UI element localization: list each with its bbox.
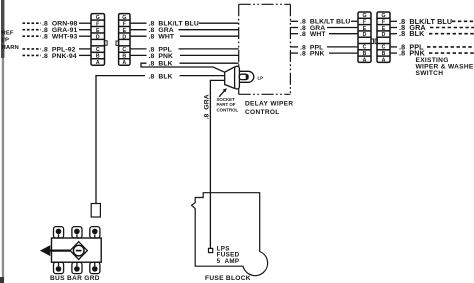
svg-text:.8 WHT: .8 WHT [149,34,175,41]
svg-text:E: E [382,26,386,32]
connector C2 half B (pins G-A) [375,12,390,63]
svg-text:REF: REF [2,30,14,36]
wire BLK ground run to bus bar drop [96,76,145,204]
wire C2 pin D to switch label [390,33,397,35]
svg-text:CONTROL: CONTROL [217,107,239,112]
svg-text:C: C [382,45,386,51]
wire dashed lead WHT-93 [23,35,42,37]
svg-text:HARN: HARN [2,45,19,51]
svg-text:E: E [123,28,127,34]
svg-text:.8 GRA: .8 GRA [204,94,211,119]
svg-text:D: D [382,32,386,38]
wire C2 pin C to switch label [390,46,397,48]
wire WHT to control [180,35,239,37]
fuse terminal LPS [209,248,213,252]
node EXISTING WIPER & WASHER SWITCH [416,57,474,77]
svg-text:.8 WHT-93: .8 WHT-93 [42,34,77,41]
connector C1 half B (pins G-A) [116,14,130,66]
svg-text:LP: LP [258,76,264,81]
wire PNK to control [180,54,239,56]
svg-text:F: F [382,20,385,26]
delay wiper control box [239,4,291,94]
wire pin E to label GRA [130,29,147,31]
bus bar bottom tab 2 [72,262,82,273]
svg-text:.8 WHT: .8 WHT [300,31,326,38]
wire ORN-98 to connector pin F [79,22,91,24]
wire dashed lead ORN-98 [23,22,42,24]
wire control to label PPL (right) [290,46,298,48]
bus bar center bolt [70,242,87,260]
svg-text:B: B [382,51,386,57]
svg-text:G: G [381,13,385,19]
bus bar top tab 3 [90,227,100,238]
wire dashed PNK to switch [429,52,474,54]
wire GRA socket stub [210,80,224,248]
wire control to label WHT (right) [290,33,298,35]
svg-text:F: F [96,21,99,27]
wire dashed BLK/LT BLU to switch [452,20,474,22]
wire GRA to control [179,29,239,31]
svg-text:D: D [122,34,126,40]
svg-text:CONTROL: CONTROL [245,109,280,116]
lamp socket barrel [239,71,253,82]
svg-text:C: C [122,47,126,53]
lamp LP bulb [239,74,248,79]
harness edge bar (page binding) [0,0,4,283]
bus bar body [52,238,102,262]
label DELAY WIPER CONTROL [245,101,293,116]
wire control to label PNK (right) [290,52,298,54]
svg-text:E: E [363,26,367,32]
ground arrow [40,245,70,256]
inline connector on BLK ground wire [91,204,100,218]
wire dashed GRA to switch [430,27,474,29]
wire GRA-91 to connector pin E [79,29,91,31]
wire WHT to connector C2 [329,33,358,35]
svg-text:G: G [122,15,126,21]
fuse block outline [192,193,268,276]
wire pin B to label PNK [130,54,147,56]
svg-text:F: F [363,20,366,26]
node REF I/P HARN [2,30,19,51]
wire pin C to label PPL [130,48,147,50]
svg-text:F: F [123,21,126,27]
svg-text:A: A [122,60,126,66]
lamp socket rear cup [225,67,235,89]
label SOCKET PART OF CONTROL [217,97,239,112]
svg-text:B: B [363,51,367,57]
bus bar top tab 2 [72,227,82,238]
wire BLK ground run to socket [180,75,225,77]
svg-text:D: D [96,34,100,40]
wire dashed lead GRA-91 [23,29,42,31]
connector C1 half A (pins G-A) [91,14,107,66]
svg-text:.8 BLK: .8 BLK [149,73,173,80]
svg-text:G: G [96,15,100,21]
wire PNK-94 to connector pin B [79,54,91,56]
svg-text:DELAY WIPER: DELAY WIPER [245,101,293,108]
wire PPL-92 to connector pin C [79,48,91,50]
svg-text:A: A [96,60,100,66]
svg-text:C: C [363,45,367,51]
leader arrow to socket [219,88,227,97]
svg-text:B: B [122,54,126,60]
wire control to label BLK/LT BLU (right) [290,20,298,22]
wire PPL to connector C2 [327,46,358,48]
connector C2 half A (pins G-A) [358,12,373,63]
wire dashed BLK to switch [429,33,474,35]
svg-text:.8 PNK: .8 PNK [149,53,174,60]
wire PNK to connector C2 [329,52,358,54]
wire WHT-93 to connector pin D [79,35,91,37]
wire BLK to control box edge [180,62,239,64]
bus bar top tab 1 [54,227,64,238]
svg-text:I/P: I/P [2,37,10,43]
wire C2 pin E to switch label [390,27,397,29]
wire C2 pin B to switch label [390,52,397,54]
svg-text:5 AMP: 5 AMP [217,258,240,265]
wire BLK/LT BLU to control [199,22,239,24]
svg-text:B: B [96,54,100,60]
svg-text:SWITCH: SWITCH [416,70,444,77]
svg-text:A: A [363,57,367,63]
bus bar ground assembly [52,227,102,274]
svg-text:BUS BAR GRD: BUS BAR GRD [50,275,100,282]
wire BLK label lead and hook [141,63,225,72]
lamp LP bulb tip [246,74,249,79]
wire dashed PPL to switch [427,46,474,48]
svg-text:C: C [96,47,100,53]
label LPS FUSED 5 AMP [217,245,240,265]
svg-text:G: G [362,13,366,19]
svg-text:A: A [382,57,386,63]
svg-text:D: D [363,32,367,38]
svg-text:.8 BLK: .8 BLK [399,29,425,38]
wire dashed lead PPL-92 [23,48,42,50]
wire GRA to connector C2 [327,27,358,29]
wire BLK/LT BLU to connector C2 [351,20,358,22]
wire control to label GRA (right) [290,27,298,29]
svg-text:.8 PNK-94: .8 PNK-94 [42,53,77,60]
bus bar bottom tab 1 [54,262,64,273]
lamp socket flange [235,66,240,89]
wire dashed lead PNK-94 [23,54,42,56]
wire pin D to label WHT [130,35,147,37]
svg-text:FUSE BLOCK: FUSE BLOCK [205,275,251,282]
wire pin F to label BLK/LT BLU [130,22,147,24]
svg-text:.8 PNK: .8 PNK [300,51,325,58]
wire C2 pin F to switch label [390,20,397,22]
wire PPL to control [179,48,239,50]
svg-text:E: E [96,28,100,34]
bus bar bottom tab 3 [90,262,100,273]
